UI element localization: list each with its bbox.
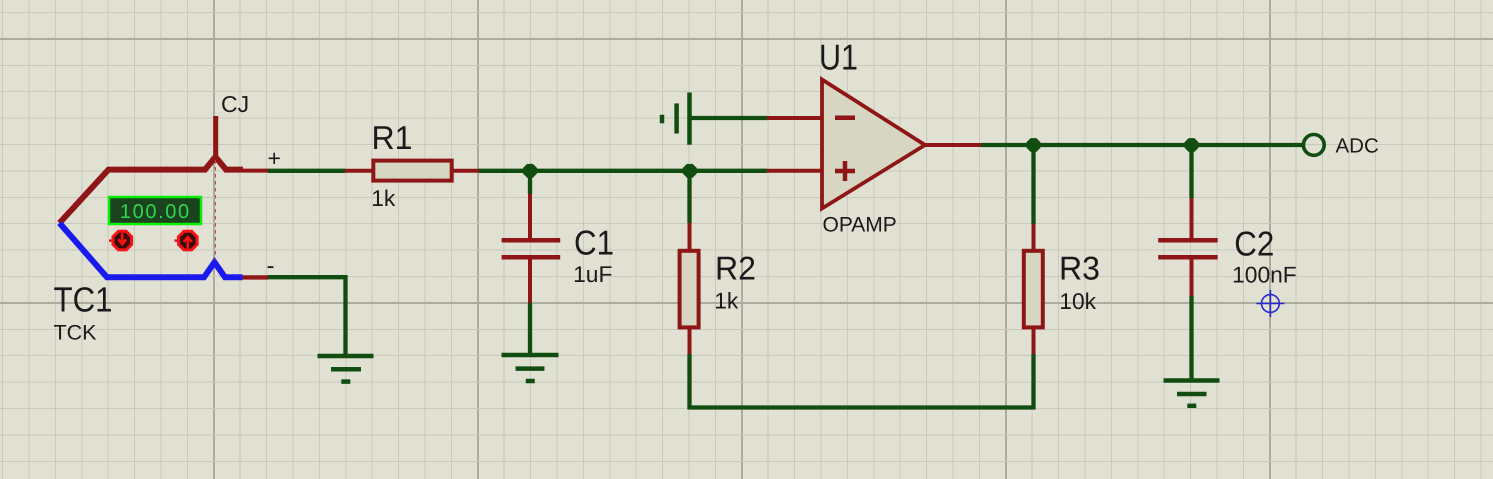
wire TC- to ground: [268, 277, 346, 356]
svg-text:+: +: [268, 145, 281, 171]
op-amp U1: [767, 80, 981, 209]
label OPAMP: [823, 214, 897, 237]
label C2: [1234, 225, 1274, 263]
svg-text:TC1: TC1: [54, 281, 113, 320]
ground (TC-): [318, 356, 374, 382]
wire feedback R2 to R3: [690, 354, 1034, 408]
resistor R1: [345, 161, 479, 181]
junction node (R2/opamp+): [683, 164, 697, 178]
pin - of TC1: [243, 275, 269, 279]
junction node (R1/C1): [523, 164, 537, 178]
label R2: [715, 250, 756, 287]
TC1 display 100.00: [109, 197, 201, 224]
wire node to C1: [528, 169, 532, 194]
TC1 down button: [109, 231, 132, 250]
label R3: [1059, 250, 1100, 287]
svg-text:1k: 1k: [714, 288, 739, 314]
ground (C2): [1164, 381, 1220, 406]
svg-text:C1: C1: [574, 224, 614, 262]
wire R1 to opamp + input: [479, 169, 767, 173]
wire C2 to ground: [1189, 296, 1193, 381]
svg-text:10k: 10k: [1059, 288, 1096, 314]
svg-text:1uF: 1uF: [573, 261, 612, 287]
value 1k (R1): [371, 185, 396, 211]
label ADC: [1336, 135, 1379, 158]
ground (C1): [502, 355, 559, 381]
thermocouple TC1 positive lead: [60, 157, 244, 223]
svg-text:100.00: 100.00: [120, 201, 191, 223]
svg-text:R1: R1: [372, 119, 413, 156]
label CJ: [221, 91, 249, 117]
svg-text:ADC: ADC: [1336, 135, 1379, 158]
svg-text:R2: R2: [715, 250, 756, 287]
label - terminal: [267, 253, 275, 280]
TC1 up button: [175, 231, 198, 250]
terminal ADC: [1303, 135, 1324, 156]
label U1: [819, 36, 858, 77]
wire node to R2: [687, 171, 691, 223]
origin marker: [1256, 290, 1284, 317]
label R1: [372, 119, 413, 156]
pin + of TC1: [243, 169, 268, 173]
value 100nF: [1232, 261, 1297, 287]
wire opamp output to ADC: [981, 143, 1303, 147]
capacitor C2: [1158, 198, 1218, 296]
svg-text:C2: C2: [1234, 225, 1274, 263]
thermocouple TC1 negative lead: [60, 223, 243, 277]
value 1uF: [573, 261, 612, 287]
value 10k: [1059, 288, 1096, 314]
svg-text:R3: R3: [1059, 250, 1100, 287]
TC1 dashed junction line: [214, 160, 216, 260]
label + terminal: [268, 145, 281, 171]
resistor R3: [1024, 224, 1043, 354]
label C1: [574, 224, 614, 262]
svg-text:U1: U1: [819, 36, 858, 77]
wire node to C2: [1189, 145, 1193, 198]
wire C1 to ground: [528, 303, 532, 356]
label TC1: [54, 281, 113, 320]
junction node (output/R3): [1027, 138, 1041, 152]
wire ground to opamp - input: [690, 116, 768, 120]
svg-text:OPAMP: OPAMP: [823, 214, 897, 237]
wire CJ (cold junction lead): [213, 116, 218, 158]
wire output node to R3: [1031, 145, 1035, 224]
svg-text:TCK: TCK: [54, 321, 97, 344]
svg-text:CJ: CJ: [221, 91, 249, 117]
wire TC+ to R1: [268, 169, 345, 173]
label TCK: [54, 321, 97, 344]
svg-text:100nF: 100nF: [1232, 261, 1297, 287]
ground (opamp - input, rotated): [662, 93, 690, 145]
svg-text:1k: 1k: [371, 185, 396, 211]
value 1k (R2): [714, 288, 739, 314]
junction node (output/C2): [1185, 138, 1199, 152]
resistor R2: [680, 223, 699, 354]
capacitor C1: [502, 194, 561, 303]
